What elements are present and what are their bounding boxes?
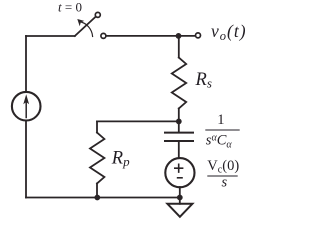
svg-text:Rp: Rp xyxy=(111,149,130,170)
svg-text:vo(t): vo(t) xyxy=(211,21,247,43)
label Rs xyxy=(195,70,212,91)
switch SW1 motion arc xyxy=(77,19,92,37)
wire switch to output node xyxy=(106,35,195,37)
label t = 0 xyxy=(58,0,82,15)
svg-text:s: s xyxy=(222,175,228,191)
svg-text:Vc(0): Vc(0) xyxy=(207,158,239,176)
label vo(t) xyxy=(211,21,247,43)
wire node D to ground xyxy=(179,198,181,204)
svg-text:sαCα: sαCα xyxy=(206,133,233,151)
wire left vertical upper xyxy=(25,36,27,92)
switch SW1 blade xyxy=(75,17,95,36)
wire node B down to capacitor xyxy=(178,121,180,131)
capacitor Ca bottom plate xyxy=(165,140,193,142)
voltage source Vc xyxy=(165,158,194,187)
wire Rp to bottom node xyxy=(96,184,98,198)
current source I1 xyxy=(12,92,41,121)
wire Rp branch top vertical xyxy=(96,121,98,132)
node A junction dot top xyxy=(176,33,182,39)
output terminal circle xyxy=(196,33,201,38)
wire left vertical lower xyxy=(25,121,27,198)
label Rp xyxy=(111,149,130,170)
svg-text:t = 0: t = 0 xyxy=(58,0,82,15)
node D junction dot bottom right xyxy=(177,195,183,201)
switch SW1 blade contact circle xyxy=(95,12,100,17)
svg-text:1: 1 xyxy=(217,112,224,128)
wire Rs to node B xyxy=(178,109,180,122)
svg-text:Rs: Rs xyxy=(195,70,212,91)
wire voltage source to bottom node xyxy=(179,187,181,198)
wire node A down to Rs xyxy=(178,36,180,58)
switch SW1 fixed contact circle xyxy=(101,33,106,38)
resistor Rp xyxy=(90,133,104,184)
ground xyxy=(167,204,192,217)
label 1 over s^alpha C_alpha xyxy=(205,112,239,151)
wire top-left horizontal xyxy=(26,35,75,37)
node C junction dot bottom left xyxy=(94,195,100,201)
node B junction dot xyxy=(176,119,182,125)
wire capacitor to voltage source xyxy=(178,141,180,158)
wire node B left to Rp branch xyxy=(97,120,179,122)
resistor Rs xyxy=(172,58,186,109)
label Vc(0) over s xyxy=(207,158,239,191)
capacitor Ca top plate xyxy=(165,132,193,134)
wire bottom horizontal xyxy=(26,197,180,199)
